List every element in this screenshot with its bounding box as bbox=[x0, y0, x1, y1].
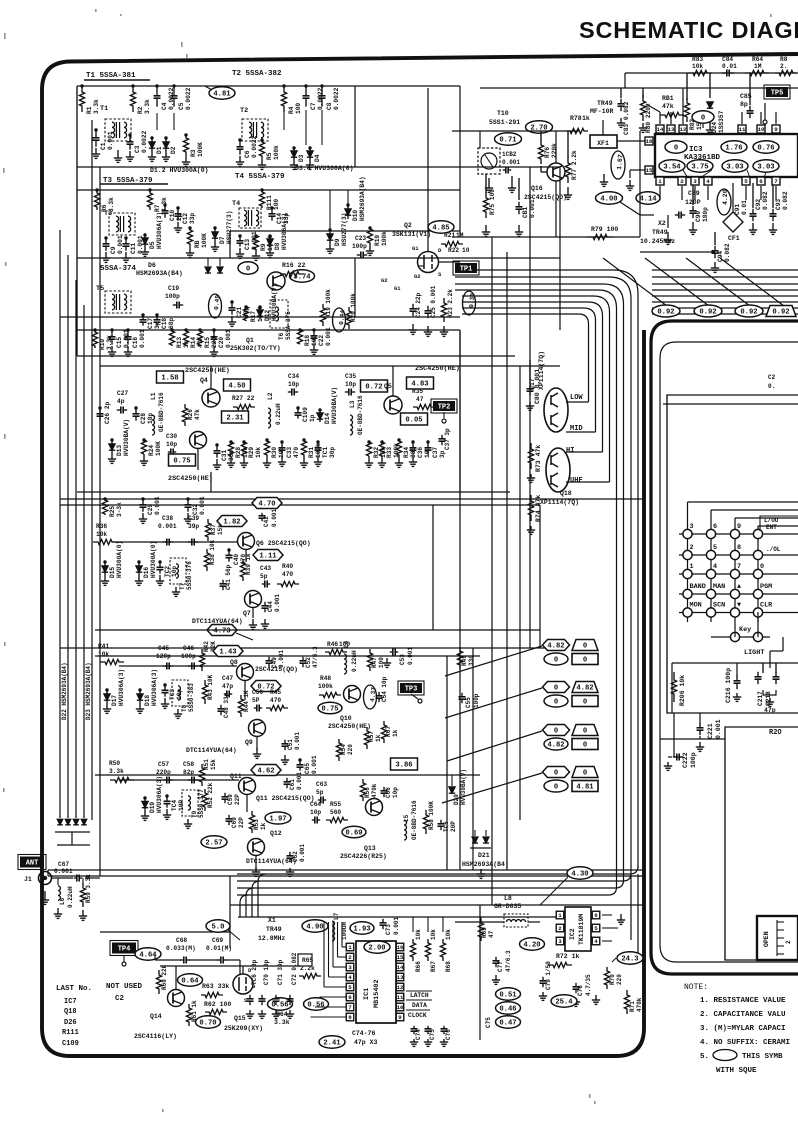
svg-text:R72 1k: R72 1k bbox=[556, 953, 580, 960]
svg-text:R9: R9 bbox=[260, 243, 267, 251]
svg-text:0: 0 bbox=[760, 563, 764, 571]
svg-text:1k: 1k bbox=[260, 822, 267, 830]
svg-text:D6: D6 bbox=[148, 262, 156, 269]
svg-text:0.92: 0.92 bbox=[740, 309, 757, 317]
svg-text:2: 2 bbox=[680, 178, 684, 185]
svg-text:NOTE:: NOTE: bbox=[684, 983, 708, 992]
svg-text:0.92: 0.92 bbox=[772, 309, 789, 317]
svg-text:3p: 3p bbox=[439, 450, 446, 458]
svg-text:220p: 220p bbox=[156, 769, 171, 776]
svg-text:1.97: 1.97 bbox=[269, 816, 286, 824]
svg-text:220k: 220k bbox=[551, 143, 558, 158]
svg-text:82p: 82p bbox=[183, 769, 194, 776]
svg-text:R13: R13 bbox=[176, 337, 183, 348]
svg-text:3-3k: 3-3k bbox=[116, 502, 123, 517]
svg-text:4.50: 4.50 bbox=[228, 383, 245, 391]
svg-text:TP3: TP3 bbox=[405, 686, 418, 694]
svg-text:11: 11 bbox=[397, 994, 404, 1001]
svg-text:1k: 1k bbox=[582, 115, 590, 122]
svg-text:D9: D9 bbox=[334, 238, 341, 246]
svg-text:R76: R76 bbox=[544, 147, 551, 158]
svg-text:C109: C109 bbox=[302, 407, 309, 422]
svg-text:100k: 100k bbox=[318, 683, 333, 690]
svg-text:47/6.3: 47/6.3 bbox=[505, 950, 512, 972]
svg-text:10k: 10k bbox=[415, 929, 422, 940]
svg-text:G1: G1 bbox=[412, 245, 419, 252]
svg-text:ANT: ANT bbox=[26, 860, 39, 868]
svg-text:0.001: 0.001 bbox=[296, 772, 303, 790]
svg-text:2SC4250(HE): 2SC4250(HE) bbox=[168, 475, 213, 483]
svg-text:L/OU: L/OU bbox=[764, 517, 779, 524]
svg-text:4.82: 4.82 bbox=[576, 685, 593, 693]
svg-text:DTC114YUA(64): DTC114YUA(64) bbox=[246, 858, 297, 865]
svg-text:C20: C20 bbox=[218, 337, 225, 348]
svg-text:47p: 47p bbox=[222, 683, 233, 690]
svg-text:0: 0 bbox=[554, 784, 558, 792]
svg-text:C79 1/50: C79 1/50 bbox=[545, 961, 552, 990]
svg-text:7: 7 bbox=[348, 1004, 352, 1011]
svg-text:100p: 100p bbox=[181, 653, 196, 660]
svg-text:T10: T10 bbox=[497, 110, 509, 117]
svg-text:D18: D18 bbox=[144, 695, 151, 706]
svg-text:R83: R83 bbox=[692, 56, 703, 63]
svg-text:R206 10k: R206 10k bbox=[679, 675, 686, 706]
svg-text:5: 5 bbox=[594, 925, 598, 932]
svg-text:D24: D24 bbox=[711, 122, 718, 133]
svg-text:5SS1-291: 5SS1-291 bbox=[489, 119, 520, 126]
svg-text:0.64: 0.64 bbox=[181, 978, 199, 986]
svg-text:1: 1 bbox=[348, 944, 352, 951]
svg-text:2.00: 2.00 bbox=[368, 945, 385, 953]
svg-text:R79 100: R79 100 bbox=[591, 226, 618, 233]
svg-text:TR49: TR49 bbox=[266, 926, 282, 933]
svg-text:D26: D26 bbox=[64, 1019, 77, 1027]
svg-text:R2O: R2O bbox=[769, 729, 782, 737]
svg-text:MB15402: MB15402 bbox=[373, 979, 381, 1008]
svg-text:L3: L3 bbox=[349, 400, 356, 408]
svg-text:Q2: Q2 bbox=[404, 222, 412, 229]
svg-text:R64: R64 bbox=[752, 56, 763, 63]
svg-text:C10: C10 bbox=[169, 210, 176, 221]
svg-text:4: 4 bbox=[706, 178, 710, 185]
svg-text:R17: R17 bbox=[250, 311, 257, 322]
svg-text:14: 14 bbox=[397, 964, 404, 971]
svg-text:5p: 5p bbox=[316, 789, 324, 796]
svg-text:D16: D16 bbox=[143, 567, 150, 578]
svg-text:./OL: ./OL bbox=[766, 546, 781, 553]
svg-text:4.82: 4.82 bbox=[547, 742, 564, 750]
svg-text:D5: D5 bbox=[149, 241, 156, 249]
svg-text:TK11819M: TK11819M bbox=[578, 914, 585, 945]
svg-text:100k: 100k bbox=[381, 231, 388, 246]
svg-text:T2 5SSA-382: T2 5SSA-382 bbox=[232, 70, 282, 78]
svg-text:0.001: 0.001 bbox=[299, 844, 306, 862]
svg-text:8: 8 bbox=[348, 1014, 352, 1021]
svg-text:C216 100p: C216 100p bbox=[725, 668, 732, 703]
svg-text:C35: C35 bbox=[345, 373, 356, 380]
svg-text:C45: C45 bbox=[158, 645, 169, 652]
svg-text:C70 10p: C70 10p bbox=[263, 959, 270, 985]
svg-text:Q1: Q1 bbox=[246, 337, 254, 344]
svg-text:D7: D7 bbox=[219, 236, 226, 244]
svg-text:0.76: 0.76 bbox=[757, 145, 774, 153]
svg-text:Q12: Q12 bbox=[270, 830, 282, 837]
svg-text:3: 3 bbox=[348, 964, 352, 971]
svg-text:C55: C55 bbox=[465, 697, 472, 708]
svg-text:0.47: 0.47 bbox=[499, 1020, 516, 1028]
svg-text:560: 560 bbox=[330, 809, 341, 816]
svg-text:Q9: Q9 bbox=[245, 739, 253, 746]
svg-text:R43 10K: R43 10K bbox=[207, 674, 214, 700]
svg-text:R45: R45 bbox=[270, 689, 281, 696]
svg-text:5.: 5. bbox=[700, 1053, 709, 1061]
svg-text:C64: C64 bbox=[310, 801, 321, 808]
svg-text:220: 220 bbox=[616, 974, 623, 985]
svg-text:C6: C6 bbox=[244, 150, 251, 158]
svg-text:LOW: LOW bbox=[570, 394, 583, 402]
svg-text:G2: G2 bbox=[381, 277, 388, 284]
svg-text:15k: 15k bbox=[210, 759, 217, 770]
svg-text:0.22uH: 0.22uH bbox=[67, 886, 74, 908]
svg-text:1.43: 1.43 bbox=[219, 649, 236, 657]
svg-text:R34: R34 bbox=[403, 447, 410, 458]
svg-text:1SS357: 1SS357 bbox=[718, 110, 725, 133]
svg-text:0: 0 bbox=[674, 145, 678, 153]
svg-text:C27: C27 bbox=[117, 390, 128, 397]
svg-text:4.62: 4.62 bbox=[257, 768, 274, 776]
svg-text:C80 0.001: C80 0.001 bbox=[534, 369, 541, 404]
svg-text:2.: 2. bbox=[780, 63, 787, 70]
svg-text:47k: 47k bbox=[662, 103, 674, 110]
svg-text:3SK131(V1): 3SK131(V1) bbox=[392, 231, 431, 238]
svg-text:47p: 47p bbox=[764, 707, 776, 714]
svg-text:C65: C65 bbox=[304, 763, 311, 774]
svg-text:5p: 5p bbox=[260, 573, 268, 580]
svg-text:R10: R10 bbox=[99, 339, 106, 350]
svg-text:5.0: 5.0 bbox=[212, 924, 225, 932]
svg-text:HVU306A(3): HVU306A(3) bbox=[118, 669, 125, 706]
svg-text:3.3k: 3.3k bbox=[109, 768, 124, 775]
svg-text:HVU30BA(V): HVU30BA(V) bbox=[123, 419, 130, 456]
svg-text:100: 100 bbox=[339, 641, 350, 648]
svg-text:47: 47 bbox=[488, 930, 495, 938]
svg-text:5SS0-377: 5SS0-377 bbox=[198, 789, 205, 818]
svg-text:C46: C46 bbox=[183, 645, 194, 652]
svg-text:R2: R2 bbox=[137, 106, 144, 114]
svg-text:R48: R48 bbox=[320, 675, 331, 682]
svg-text:0.69: 0.69 bbox=[345, 830, 362, 838]
svg-text:0.46: 0.46 bbox=[499, 1006, 516, 1014]
svg-text:C90: C90 bbox=[695, 211, 702, 222]
svg-text:33p: 33p bbox=[189, 213, 196, 224]
svg-text:HSM2693A(B4): HSM2693A(B4) bbox=[136, 270, 183, 277]
svg-text:C67: C67 bbox=[58, 861, 69, 868]
svg-text:5SS0-383: 5SS0-383 bbox=[188, 683, 195, 712]
svg-text:3: 3 bbox=[693, 178, 697, 185]
svg-text:C43: C43 bbox=[260, 565, 271, 572]
svg-text:2. CAPACITANCE VALU: 2. CAPACITANCE VALU bbox=[700, 1011, 786, 1019]
svg-text:0.75: 0.75 bbox=[173, 458, 190, 466]
svg-text:22P: 22P bbox=[238, 817, 245, 828]
svg-text:470k: 470k bbox=[371, 783, 378, 798]
svg-text:0.: 0. bbox=[768, 383, 775, 390]
svg-text:C34: C34 bbox=[288, 373, 299, 380]
svg-text:0.033(M): 0.033(M) bbox=[166, 945, 196, 952]
svg-text:1.58: 1.58 bbox=[161, 375, 178, 383]
svg-text:HVU300A(0): HVU300A(0) bbox=[150, 541, 157, 578]
svg-text:HSM2693A(B4): HSM2693A(B4) bbox=[359, 176, 366, 221]
svg-text:0.01(M): 0.01(M) bbox=[206, 945, 232, 952]
svg-text:C2: C2 bbox=[768, 374, 776, 381]
svg-text:0.75: 0.75 bbox=[321, 706, 338, 714]
svg-text:5: 5 bbox=[713, 544, 717, 552]
svg-text:R40: R40 bbox=[282, 563, 293, 570]
svg-text:R35: R35 bbox=[412, 388, 423, 395]
svg-text:3.75: 3.75 bbox=[691, 164, 708, 172]
svg-text:12.8MHz: 12.8MHz bbox=[258, 935, 285, 942]
svg-text:X2: X2 bbox=[658, 220, 666, 227]
svg-text:HSM2693A(B4): HSM2693A(B4) bbox=[462, 861, 509, 868]
svg-text:R66: R66 bbox=[415, 961, 422, 972]
svg-text:C17: C17 bbox=[147, 318, 154, 329]
svg-text:0: 0 bbox=[554, 770, 558, 778]
svg-text:R15: R15 bbox=[204, 337, 211, 348]
svg-text:UHF: UHF bbox=[570, 477, 583, 485]
svg-text:3.03: 3.03 bbox=[757, 164, 774, 172]
svg-text:D2: D2 bbox=[170, 146, 177, 154]
svg-text:Q6 2SC4215(QO): Q6 2SC4215(QO) bbox=[256, 540, 311, 547]
svg-text:C38: C38 bbox=[162, 515, 173, 522]
svg-text:4. NO SUFFIX: CERAMI: 4. NO SUFFIX: CERAMI bbox=[700, 1039, 790, 1047]
svg-text:BAND: BAND bbox=[690, 583, 706, 591]
svg-text:R24: R24 bbox=[148, 445, 155, 456]
svg-text:0.0022: 0.0022 bbox=[333, 87, 340, 110]
svg-text:HSU277(3): HSU277(3) bbox=[341, 213, 348, 246]
svg-text:3.3k: 3.3k bbox=[93, 99, 100, 114]
svg-text:4.20: 4.20 bbox=[523, 942, 540, 950]
svg-text:TP2: TP2 bbox=[438, 404, 451, 412]
svg-text:14: 14 bbox=[657, 126, 664, 133]
svg-text:R31: R31 bbox=[308, 447, 315, 458]
svg-text:C3: C3 bbox=[134, 145, 141, 153]
svg-text:0: 0 bbox=[583, 699, 587, 707]
svg-text:4.73: 4.73 bbox=[213, 628, 230, 636]
svg-text:0: 0 bbox=[554, 685, 558, 693]
svg-text:47/6.3: 47/6.3 bbox=[312, 646, 319, 668]
svg-text:100: 100 bbox=[295, 103, 302, 114]
svg-text:D3.4 HVU300A(0): D3.4 HVU300A(0) bbox=[295, 165, 354, 172]
svg-text:C21: C21 bbox=[236, 307, 243, 318]
svg-text:MAN: MAN bbox=[713, 583, 725, 591]
svg-text:HVU30BA(V): HVU30BA(V) bbox=[331, 387, 338, 424]
svg-text:4.82: 4.82 bbox=[547, 643, 564, 651]
svg-text:0.001: 0.001 bbox=[278, 650, 285, 668]
svg-text:0.49: 0.49 bbox=[213, 294, 221, 310]
svg-text:C37: C37 bbox=[432, 447, 439, 458]
svg-text:C221: C221 bbox=[707, 723, 714, 739]
svg-text:2: 2 bbox=[690, 544, 694, 552]
svg-text:R44 1K: R44 1K bbox=[243, 690, 250, 712]
svg-text:1.82: 1.82 bbox=[223, 519, 240, 527]
svg-text:WITH SQUE: WITH SQUE bbox=[716, 1067, 757, 1075]
svg-text:100: 100 bbox=[273, 199, 280, 210]
svg-text:R19: R19 bbox=[374, 235, 381, 246]
svg-text:22P: 22P bbox=[234, 794, 241, 805]
svg-text:TR49: TR49 bbox=[652, 229, 668, 236]
svg-text:10p: 10p bbox=[288, 381, 299, 388]
svg-text:2SC4226(R25): 2SC4226(R25) bbox=[340, 853, 387, 860]
svg-text:12: 12 bbox=[680, 126, 687, 133]
svg-text:4.70: 4.70 bbox=[258, 501, 275, 509]
svg-text:0.001: 0.001 bbox=[311, 755, 318, 774]
svg-text:10p: 10p bbox=[166, 441, 177, 448]
svg-text:0.01: 0.01 bbox=[741, 200, 748, 215]
svg-text:0.001: 0.001 bbox=[274, 594, 281, 612]
svg-text:0: 0 bbox=[583, 770, 587, 778]
svg-text:10k: 10k bbox=[692, 63, 703, 70]
svg-text:0.05: 0.05 bbox=[405, 417, 422, 425]
svg-text:R111: R111 bbox=[62, 1029, 79, 1037]
svg-text:CLR: CLR bbox=[760, 602, 773, 610]
svg-text:C68: C68 bbox=[176, 937, 187, 944]
svg-text:C92: C92 bbox=[755, 199, 762, 210]
svg-text:MF-10R: MF-10R bbox=[590, 108, 614, 115]
svg-text:C28: C28 bbox=[140, 413, 147, 424]
svg-text:TR49: TR49 bbox=[597, 100, 613, 107]
svg-text:C13: C13 bbox=[244, 239, 251, 250]
svg-text:Q18: Q18 bbox=[64, 1008, 77, 1016]
svg-text:C7: C7 bbox=[310, 102, 317, 110]
svg-text:R25: R25 bbox=[109, 506, 116, 517]
svg-text:R55: R55 bbox=[330, 801, 341, 808]
svg-text:0.71: 0.71 bbox=[499, 137, 517, 145]
svg-text:D19: D19 bbox=[149, 802, 156, 813]
svg-text:47k: 47k bbox=[194, 409, 201, 420]
svg-text:C1: C1 bbox=[100, 142, 107, 150]
svg-text:20P: 20P bbox=[450, 821, 457, 832]
svg-text:0.56: 0.56 bbox=[271, 1002, 288, 1010]
svg-text:TC1: TC1 bbox=[322, 447, 329, 458]
svg-text:Q15: Q15 bbox=[234, 1015, 246, 1022]
svg-text:1: 1 bbox=[558, 912, 562, 919]
svg-text:3.3k: 3.3k bbox=[274, 1019, 290, 1026]
svg-text:47p X3: 47p X3 bbox=[354, 1039, 378, 1046]
svg-text:MON: MON bbox=[690, 602, 702, 610]
svg-text:R7: R7 bbox=[154, 204, 161, 212]
svg-text:C63: C63 bbox=[316, 781, 327, 788]
svg-text:0: 0 bbox=[554, 728, 558, 736]
svg-text:R73 47k: R73 47k bbox=[535, 445, 542, 472]
svg-text:6: 6 bbox=[348, 994, 352, 1001]
svg-text:R42: R42 bbox=[203, 641, 210, 652]
svg-text:C57: C57 bbox=[158, 761, 169, 768]
svg-text:R6: R6 bbox=[101, 204, 108, 212]
svg-text:39p: 39p bbox=[188, 523, 199, 530]
svg-text:R30: R30 bbox=[271, 447, 278, 458]
svg-text:C89: C89 bbox=[688, 190, 700, 197]
svg-text:1p: 1p bbox=[309, 414, 316, 422]
svg-text:C16: C16 bbox=[132, 337, 139, 348]
svg-text:IC7: IC7 bbox=[64, 998, 77, 1006]
svg-text:D13: D13 bbox=[116, 445, 123, 456]
svg-text:R77 2.2k: R77 2.2k bbox=[571, 150, 578, 180]
svg-text:0.0022: 0.0022 bbox=[251, 135, 258, 158]
svg-text:GE-8BD-7616: GE-8BD-7616 bbox=[357, 395, 364, 435]
svg-text:10: 10 bbox=[397, 1004, 404, 1011]
svg-text:2SC4250(HE): 2SC4250(HE) bbox=[415, 365, 460, 373]
svg-text:CLOCK: CLOCK bbox=[408, 1012, 427, 1019]
svg-text:100p: 100p bbox=[165, 293, 180, 300]
svg-text:1: 1 bbox=[690, 563, 694, 571]
svg-text:100k: 100k bbox=[273, 145, 280, 160]
svg-text:2.57: 2.57 bbox=[205, 840, 222, 848]
svg-text:10: 10 bbox=[758, 126, 765, 133]
svg-text:RB: RB bbox=[194, 240, 201, 248]
svg-text:100p: 100p bbox=[473, 693, 480, 708]
svg-text:R8: R8 bbox=[780, 56, 788, 63]
svg-text:4: 4 bbox=[594, 938, 598, 945]
svg-text:4.7/35: 4.7/35 bbox=[585, 974, 592, 996]
svg-text:10k: 10k bbox=[98, 651, 109, 658]
svg-text:100: 100 bbox=[378, 657, 385, 668]
svg-text:1.76: 1.76 bbox=[725, 145, 742, 153]
svg-text:D22 HSM2693A(B4): D22 HSM2693A(B4) bbox=[61, 662, 68, 720]
svg-text:Q5: Q5 bbox=[384, 383, 392, 390]
svg-text:0.0022: 0.0022 bbox=[185, 87, 192, 110]
svg-text:0: 0 bbox=[246, 266, 250, 274]
svg-text:R29: R29 bbox=[248, 447, 255, 458]
svg-text:0: 0 bbox=[554, 657, 558, 665]
svg-text:2.31: 2.31 bbox=[226, 415, 244, 423]
svg-text:SCHEMATIC DIAGRAM: SCHEMATIC DIAGRAM bbox=[579, 17, 798, 43]
svg-text:OPEN: OPEN bbox=[763, 931, 770, 947]
svg-text:HI: HI bbox=[566, 447, 574, 455]
svg-text:X1: X1 bbox=[268, 917, 276, 924]
svg-text:R75 100: R75 100 bbox=[489, 189, 496, 215]
svg-text:0.72: 0.72 bbox=[365, 384, 382, 392]
svg-text:0.56: 0.56 bbox=[307, 1002, 324, 1010]
svg-text:5SS0-376: 5SS0-376 bbox=[186, 561, 193, 590]
svg-text:GE-8BD-7616: GE-8BD-7616 bbox=[411, 800, 418, 840]
svg-text:R71: R71 bbox=[629, 1001, 636, 1012]
svg-text:Q7: Q7 bbox=[243, 610, 251, 617]
svg-text:3.54: 3.54 bbox=[663, 164, 681, 172]
svg-text:4.81: 4.81 bbox=[213, 91, 231, 99]
svg-text:16: 16 bbox=[646, 138, 653, 145]
svg-text:C12: C12 bbox=[182, 213, 189, 224]
svg-text:J1: J1 bbox=[24, 876, 32, 883]
svg-text:2SC4250(HE): 2SC4250(HE) bbox=[185, 367, 230, 375]
svg-text:R38 10k: R38 10k bbox=[209, 539, 216, 565]
svg-text:R3: R3 bbox=[190, 149, 197, 157]
svg-text:2SC4250(HE): 2SC4250(HE) bbox=[328, 723, 371, 730]
svg-text:0.001: 0.001 bbox=[54, 868, 73, 875]
svg-text:T5: T5 bbox=[96, 285, 104, 293]
svg-text:D14: D14 bbox=[324, 413, 331, 424]
svg-text:C26 2p: C26 2p bbox=[104, 401, 111, 424]
svg-text:12: 12 bbox=[397, 984, 404, 991]
svg-text:10k: 10k bbox=[255, 447, 262, 458]
svg-text:R18: R18 bbox=[304, 335, 311, 346]
svg-text:R36: R36 bbox=[96, 523, 107, 530]
svg-text:R21: R21 bbox=[444, 232, 455, 239]
svg-text:R28: R28 bbox=[235, 447, 242, 458]
svg-text:7: 7 bbox=[737, 563, 741, 571]
svg-text:0.22uH: 0.22uH bbox=[275, 403, 282, 425]
svg-text:IC2: IC2 bbox=[569, 928, 576, 940]
svg-text:PGM: PGM bbox=[760, 583, 772, 591]
svg-text:0: 0 bbox=[583, 657, 587, 665]
